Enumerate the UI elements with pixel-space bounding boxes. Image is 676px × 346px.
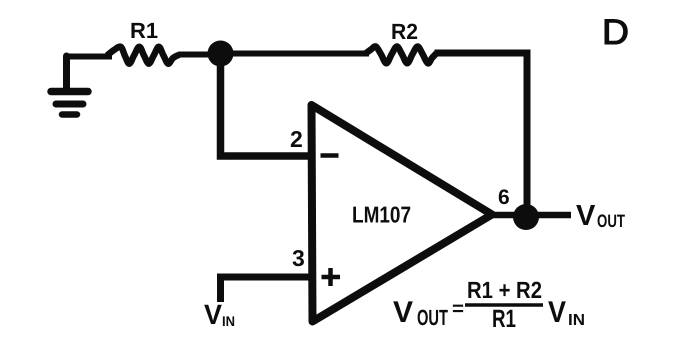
wire: ground to R1 [64,54,112,60]
svg-text:D: D [602,12,629,52]
non-inverting input plus sign [322,268,341,286]
svg-text:3: 3 [292,245,305,271]
svg-text:=: = [452,298,464,320]
svg-text:IN: IN [568,312,585,329]
label VOUT [576,200,625,232]
wire: op-amp output to Vout [490,212,571,219]
ground [51,56,88,115]
wire: R1 to junction node [178,52,222,58]
svg-text:LM107: LM107 [352,202,411,228]
resistor R2 [365,19,437,63]
inverting input minus sign [321,153,339,158]
node: junction of R1, R2 and inverting input [208,41,234,67]
svg-text:R1 + R2: R1 + R2 [467,277,542,303]
svg-text:IN: IN [222,313,235,329]
svg-text:V: V [393,296,413,329]
formula: VOUT = (R1 + R2)/R1 * VIN [393,277,585,333]
resistor R1 [107,18,179,64]
svg-text:2: 2 [290,126,303,152]
wire: junction down and right to pin 2 [221,53,312,156]
node: output junction [513,204,539,230]
svg-text:6: 6 [498,186,510,209]
wire: junction to R2 [220,51,369,57]
wire: R2 to output node (feedback, down right side) [435,53,528,210]
svg-text:R1: R1 [130,18,158,43]
op-amp U1 [312,105,493,322]
svg-text:R1: R1 [492,305,516,333]
wire: Vin stub up and right to pin 3 [221,277,312,302]
svg-text:OUT: OUT [597,211,625,231]
label VIN [204,299,235,330]
svg-text:R2: R2 [391,19,418,44]
svg-text:OUT: OUT [417,305,448,330]
svg-text:V: V [548,296,566,329]
svg-text:V: V [204,299,222,330]
svg-text:V: V [576,200,596,232]
